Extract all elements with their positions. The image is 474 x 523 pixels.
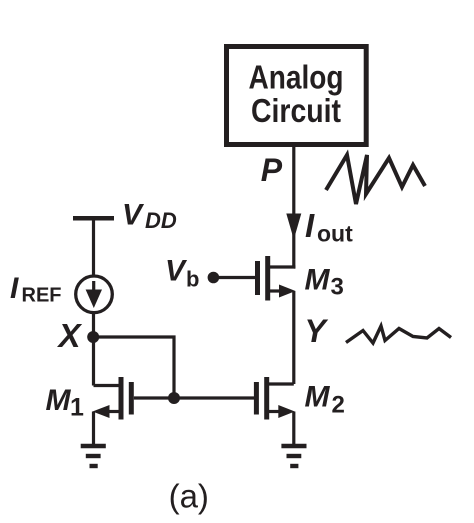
Vb gate lead [213, 276, 255, 279]
M1 drain lead [94, 384, 119, 387]
svg-text:2: 2 [332, 392, 345, 419]
svg-text:M: M [305, 381, 331, 414]
node X dot [87, 331, 99, 343]
M1 source wire to ground [92, 412, 95, 447]
svg-text:X: X [57, 317, 83, 354]
M3 drain corner [294, 267, 296, 269]
transistor M2 [256, 377, 294, 446]
svg-text:Analog: Analog [249, 59, 344, 96]
ground M2 [281, 446, 306, 466]
VDD rail bar [73, 216, 114, 221]
M1 gate bar [129, 382, 134, 415]
svg-text:DD: DD [145, 208, 177, 233]
M3 source arrow [279, 285, 296, 298]
Vb dot [208, 272, 220, 284]
M2 drain lead [269, 382, 294, 385]
wire P (box to M3 drain) [292, 147, 295, 269]
arrow Iout [286, 214, 301, 240]
M3 gate bar [255, 261, 260, 295]
M3 channel bar [265, 256, 270, 301]
svg-text:Circuit: Circuit [251, 92, 341, 129]
svg-text:I: I [10, 272, 19, 305]
svg-text:V: V [165, 255, 188, 288]
M1 channel bar [119, 377, 124, 420]
junction dot [168, 392, 180, 404]
M1 source arrow [93, 405, 110, 418]
wire X to gate line [93, 337, 174, 398]
squiggle Y [346, 326, 451, 343]
M2 source wire to ground [292, 412, 295, 447]
M3 drain lead [270, 265, 295, 268]
gate line M1-M2 [134, 396, 254, 399]
svg-text:3: 3 [331, 274, 344, 301]
svg-text:REF: REF [22, 285, 62, 307]
current source arrow [92, 281, 95, 292]
current source IREF circle [76, 276, 113, 313]
wire IREF to M1 drain [92, 313, 95, 386]
M2 gate bar [254, 382, 259, 415]
transistor M3 [258, 256, 296, 301]
svg-text:V: V [122, 199, 145, 232]
ground M1 [81, 446, 106, 466]
svg-text:M: M [46, 384, 72, 417]
M1 source lead [104, 410, 119, 413]
M3 source lead [270, 289, 282, 292]
svg-text:out: out [317, 221, 353, 247]
M2 source arrow [278, 405, 295, 418]
svg-text:1: 1 [70, 394, 84, 422]
box Analog Circuit [227, 47, 367, 145]
squiggle top right [326, 155, 425, 204]
svg-text:P: P [261, 152, 283, 188]
M2 channel bar [264, 377, 269, 420]
M2 source lead [269, 410, 281, 413]
wire VDD to IREF [92, 218, 95, 276]
svg-text:I: I [305, 207, 315, 244]
svg-text:b: b [186, 267, 199, 292]
transistor M1 [93, 377, 132, 446]
svg-text:M: M [305, 264, 331, 297]
wire Y (M3 source to M2 drain) [292, 291, 295, 384]
svg-text:(a): (a) [169, 478, 209, 515]
svg-text:Y: Y [305, 313, 329, 349]
